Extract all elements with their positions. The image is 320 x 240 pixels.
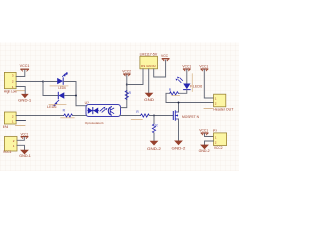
wire LED6b to node B bbox=[65, 95, 76, 97]
wire pin1 to GND-1 bbox=[17, 145, 25, 149]
svg-text:High Low: High Low bbox=[4, 90, 18, 94]
transistor Q? MOSFET N bbox=[173, 111, 199, 121]
wire mosfet drain bbox=[178, 103, 180, 113]
LED LED6 (bottom, reversed) bbox=[47, 92, 66, 109]
ground GND-1 top-left bbox=[18, 94, 31, 103]
junction bbox=[42, 81, 44, 83]
svg-text:GND: GND bbox=[144, 98, 155, 102]
svg-text:VCC1: VCC1 bbox=[21, 132, 29, 136]
svg-text:GND-2: GND-2 bbox=[199, 149, 210, 153]
wire node B down into opto pin1 bbox=[76, 105, 86, 107]
wire regulator in to VCC bbox=[154, 60, 166, 77]
wire resistor to out net bbox=[166, 93, 214, 102]
wire LED branch left vertical bbox=[42, 82, 44, 96]
wire regulator out to VCC2 rail bbox=[127, 69, 143, 85]
junction bbox=[126, 84, 128, 86]
wire LED6 cathode to right vertical bbox=[64, 82, 76, 106]
svg-text:VCC1: VCC1 bbox=[3, 150, 12, 154]
wire resistor to opto pin2 bbox=[73, 115, 87, 117]
svg-text:IN: IN bbox=[3, 125, 9, 129]
wire gate net to mosfet bbox=[149, 115, 173, 117]
power VCC1 top-left bbox=[20, 64, 30, 76]
wire IN pin2 to resistor bbox=[16, 115, 64, 117]
LED LED6 (top) bbox=[50, 73, 68, 91]
connector Header OUT bbox=[204, 94, 233, 111]
wire pin3 to VCC1 bbox=[16, 76, 24, 78]
svg-text:LED6: LED6 bbox=[47, 105, 57, 109]
ground GND-1 (power-in connector) bbox=[19, 150, 31, 158]
svg-text:VCC2: VCC2 bbox=[122, 70, 131, 74]
svg-text:LM1117-5V: LM1117-5V bbox=[140, 52, 159, 56]
svg-text:GND-2: GND-2 bbox=[172, 147, 186, 151]
junction bbox=[153, 115, 155, 117]
svg-text:MOSFET N: MOSFET N bbox=[182, 115, 200, 119]
wire regulator gnd bbox=[148, 69, 150, 93]
wire pin1 to GND-1 bbox=[16, 87, 25, 94]
svg-text:OU: OU bbox=[152, 65, 157, 68]
svg-text:GND-1: GND-1 bbox=[19, 154, 31, 158]
svg-text:VCC1: VCC1 bbox=[199, 65, 208, 69]
wire opto collector to pullup bbox=[121, 75, 127, 108]
connector P? VCC2 bbox=[213, 129, 227, 150]
ground GND-2 (mosfet) bbox=[172, 141, 186, 151]
resistor R? series PLED bbox=[169, 88, 180, 95]
power VCC (input) bbox=[161, 54, 169, 61]
svg-text:GND-1: GND-1 bbox=[18, 99, 31, 103]
wire IN pin1 stub bbox=[16, 120, 25, 122]
wire mosfet source to gnd bbox=[178, 119, 180, 141]
svg-text:VCC1: VCC1 bbox=[20, 64, 30, 68]
connector J? IN bbox=[3, 112, 25, 129]
svg-text:GND-2: GND-2 bbox=[147, 147, 161, 151]
ground GND-2 (pulldown) bbox=[147, 141, 161, 151]
svg-text:Header OUT: Header OUT bbox=[213, 107, 233, 111]
power VCC1 (PLED) bbox=[182, 65, 191, 84]
wire pulldown bottom bbox=[153, 133, 155, 141]
svg-text:GN: GN bbox=[146, 65, 151, 68]
wire P? pin2 to GND-2 bbox=[205, 141, 214, 145]
power VCC2 bbox=[122, 70, 131, 76]
ground GND-2 (bottom right) bbox=[199, 145, 210, 153]
svg-text:U?: U? bbox=[85, 101, 89, 105]
svg-text:VCC: VCC bbox=[161, 54, 169, 58]
wire opto emitter to gate net bbox=[121, 115, 141, 117]
svg-text:VCC2: VCC2 bbox=[214, 146, 223, 150]
power VCC1 (power-in connector) bbox=[17, 132, 28, 140]
wire pulldown top bbox=[153, 116, 155, 125]
svg-text:VCC1: VCC1 bbox=[182, 65, 191, 69]
resistor R? pull-up (vertical) bbox=[125, 91, 131, 100]
ground GND (regulator) bbox=[144, 93, 155, 102]
resistor R? series gate bbox=[131, 110, 149, 119]
optoisolator U? Optoisolator1 bbox=[85, 101, 121, 125]
connector J? High Low bbox=[4, 72, 25, 93]
resistor R? inline (IN net) bbox=[61, 109, 74, 118]
regulator U? LM1117-5V bbox=[140, 52, 159, 68]
power VCC1 (Header OUT) bbox=[199, 65, 213, 98]
wire to LED6 anode bbox=[43, 82, 58, 96]
connector J? VCC1 power in bbox=[3, 137, 17, 155]
LED PLED6 bbox=[176, 74, 203, 92]
svg-text:Optoisolator1: Optoisolator1 bbox=[85, 121, 104, 125]
resistor R? pull-down bbox=[152, 124, 158, 133]
junction bbox=[75, 95, 77, 97]
wire PLED cathode to resistor bbox=[178, 90, 186, 93]
junction bbox=[178, 102, 180, 104]
power VCC1 (bottom right) bbox=[199, 129, 213, 137]
wire pin2 to LED node bbox=[16, 81, 43, 83]
svg-text:VCC1: VCC1 bbox=[199, 129, 208, 133]
svg-text:LED6: LED6 bbox=[58, 86, 66, 90]
svg-text:IN: IN bbox=[141, 65, 145, 68]
